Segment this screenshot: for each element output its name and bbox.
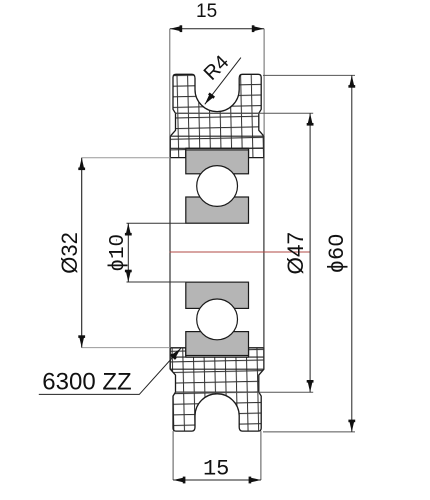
- svg-text:ϕ60: ϕ60: [325, 234, 350, 274]
- bearing upper: inner race: [186, 197, 249, 223]
- zero dot masks: [114, 239, 117, 242]
- side face lines and top-dim extension lines: [170, 29, 264, 137]
- svg-text:15: 15: [196, 1, 217, 22]
- wheel body lower half-section (hatched, mirror): [170, 348, 264, 431]
- lower section edge lines (groove bottom / recess / hub / bearing seat): [170, 357, 264, 392]
- label R4 (groove radius) with leader arrow: [205, 58, 241, 105]
- svg-text:6300 ZZ: 6300 ZZ: [42, 368, 131, 395]
- upper section edge lines (groove bottom / recess / hub / bearing seat): [170, 113, 264, 148]
- dimension phi60 (outer diameter): [263, 75, 355, 432]
- dimension O47 (groove bottom diameter): [176, 113, 314, 392]
- dimension 15 (top width): [170, 28, 264, 30]
- wheel body upper half-section (hatched): [170, 74, 264, 157]
- bore lines (phi10 extension lines): [127, 223, 249, 282]
- red centerline (axis): [170, 251, 310, 253]
- bearing lower: outer race: [186, 332, 249, 356]
- bearing lower: inner race: [186, 282, 249, 308]
- bearing upper: outer race: [186, 150, 249, 174]
- svg-text:15: 15: [203, 456, 229, 481]
- bearing upper: ball: [197, 166, 238, 207]
- dimension O32 (lip bore): [82, 158, 171, 348]
- bearing lower: ball: [197, 299, 238, 340]
- svg-text:Ø32: Ø32: [57, 232, 82, 274]
- svg-text:ϕ10: ϕ10: [107, 234, 130, 272]
- bottom-dim extension lines: [173, 431, 261, 480]
- dimension phi10 (bearing bore): [127, 223, 129, 282]
- svg-text:Ø47: Ø47: [283, 232, 308, 275]
- dimension 15 (bottom width): [173, 479, 261, 481]
